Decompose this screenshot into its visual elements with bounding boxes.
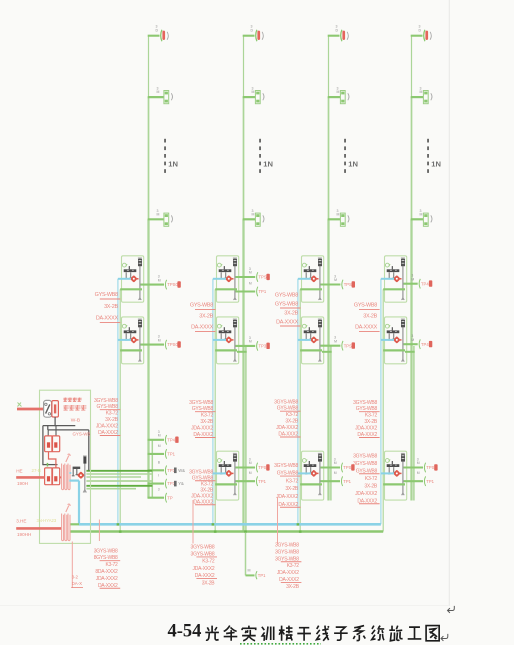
riser closet row y=219.3 column 4 — [411, 209, 432, 226]
rack bar — [233, 319, 237, 362]
telecom outlet diamond — [225, 336, 234, 344]
svg-text:GYS-WB8: GYS-WB8 — [190, 303, 213, 309]
wire stub to TP outlet y=467.5 — [321, 466, 341, 468]
cable schedule below bus column2 — [191, 544, 217, 586]
rack top cap — [138, 259, 142, 266]
unit2 lower link column 3 — [322, 351, 332, 353]
telecom outlet diamond — [225, 275, 234, 283]
svg-text:3X-2B: 3X-2B — [284, 311, 298, 317]
TP outlet TP4 — [419, 279, 432, 289]
pair-count label — [249, 458, 252, 466]
svg-text:TPS: TPS — [259, 275, 267, 280]
svg-text:3X-2B: 3X-2B — [286, 584, 300, 590]
TP outlet TPS0 — [165, 340, 180, 350]
svg-text:K3-72: K3-72 — [201, 413, 214, 419]
hub hooks — [220, 333, 227, 340]
svg-text:3X-2B: 3X-2B — [285, 419, 299, 425]
rack bar — [401, 453, 405, 495]
MDF interconnect wire — [49, 452, 56, 468]
svg-text:3X-2B: 3X-2B — [105, 417, 119, 423]
floor distributor FD box (riser x=243.5, top y=451.2) — [217, 451, 239, 500]
wire stub to TP outlet y=344.6 — [141, 344, 165, 346]
rack top cap — [233, 320, 237, 327]
FD label circle — [217, 263, 222, 267]
pair-count label — [158, 460, 161, 464]
wire stub to TP outlet y=439.8 — [148, 439, 165, 441]
red leader tick at bus column2 — [192, 500, 194, 544]
svg-text:W&: W& — [178, 468, 185, 473]
cable schedule text column2 mid — [190, 303, 216, 332]
lower green wire into FD — [300, 349, 322, 351]
svg-text:27-B: 27-B — [32, 468, 41, 473]
horizontal cable (cyan) into FD — [213, 472, 226, 474]
floor distributor FD box (riser x=148.5, top y=255.8) — [122, 256, 144, 302]
svg-text:JDA-XXX2: JDA-XXX2 — [96, 424, 118, 430]
FD label circle — [122, 324, 127, 328]
svg-text:M: M — [157, 213, 160, 217]
cable schedule beside bottom unit column3 — [274, 463, 300, 508]
telephone exchange symbol — [44, 400, 52, 417]
FD label circle — [302, 459, 307, 463]
telecom outlet diamond — [130, 336, 139, 344]
pair-count label — [249, 267, 252, 275]
coil2 tail wire — [71, 542, 73, 589]
rack bar — [401, 258, 405, 300]
hub hooks — [125, 272, 132, 279]
svg-text:M: M — [158, 444, 161, 448]
horizontal cable (cyan) into FD — [213, 278, 226, 280]
cyan horizontal backbone bus — [79, 523, 381, 526]
svg-text:M: M — [334, 278, 337, 282]
cyan backbone vertical column 4 — [380, 279, 382, 525]
svg-text:DA-XXXX: DA-XXXX — [96, 316, 119, 322]
riser closet row y=219.3 column 1 — [148, 209, 173, 226]
cable schedule below bus column3 — [275, 542, 301, 589]
svg-text:GYS-WB: GYS-WB — [73, 431, 91, 436]
svg-text:K3-72: K3-72 — [286, 412, 299, 418]
svg-text:TPS: TPS — [344, 282, 352, 287]
FD label circle — [122, 263, 127, 267]
city trunk label yellow — [32, 468, 41, 473]
TP outlet TP3 — [165, 466, 185, 476]
riser closet row y=97.1 column 3 — [328, 86, 349, 103]
telecom outlet diamond — [310, 470, 319, 478]
svg-text:M: M — [411, 338, 414, 342]
TP outlet TP3 — [257, 341, 270, 351]
svg-text:3GYS-WB8: 3GYS-WB8 — [94, 548, 118, 554]
cyan bus drop from BD — [78, 481, 80, 525]
svg-text:JDA-XXX2: JDA-XXX2 — [96, 576, 118, 582]
floor count label column 2 — [263, 160, 273, 169]
MDF frame box 3 — [45, 468, 53, 485]
svg-text:3X-2B: 3X-2B — [285, 486, 299, 492]
svg-text:M: M — [417, 461, 420, 465]
riser closet row y=97.1 column 1 — [148, 86, 173, 103]
svg-text:TP1: TP1 — [259, 289, 267, 294]
rack bar — [318, 453, 322, 495]
rack bar — [233, 258, 237, 300]
pair-count label — [417, 471, 420, 475]
svg-text:TP3: TP3 — [259, 344, 267, 349]
wire stub to TP outlet y=481.2 — [404, 480, 424, 482]
MDF frame box 4 — [52, 468, 60, 485]
svg-text:3GYS-WB8: 3GYS-WB8 — [275, 549, 299, 555]
svg-text:K3-72: K3-72 — [106, 411, 119, 417]
svg-text:190HH: 190HH — [17, 532, 31, 537]
wire stub to TP outlet y=467.5 — [236, 466, 256, 468]
svg-text:3X-2B: 3X-2B — [199, 314, 213, 320]
rack top cap — [318, 259, 322, 266]
wire stub to TP outlet y=481.2 — [321, 480, 341, 482]
svg-text:3-2: 3-2 — [72, 575, 79, 580]
bus junction dots — [117, 523, 302, 533]
rack top cap — [401, 259, 405, 266]
riser second run column 4 — [413, 346, 415, 501]
big-pair cable label above — [16, 518, 26, 523]
svg-text:TPS: TPS — [343, 465, 351, 470]
svg-text:TPS: TPS — [258, 465, 266, 470]
switch bar — [387, 461, 400, 467]
svg-text:K3-72: K3-72 — [202, 559, 215, 565]
cable schedule text column1 mid — [95, 292, 121, 322]
green tick on wire — [47, 463, 49, 467]
pair-count label — [158, 275, 161, 283]
pair-count label — [158, 488, 160, 492]
top floor TP outlet column 3 — [328, 25, 349, 42]
svg-text:DA-XXXX: DA-XXXX — [276, 320, 299, 326]
floors-ellipsis column 1 — [164, 139, 166, 173]
wire stub to TP outlet y=277.0 — [236, 276, 256, 278]
svg-text:M: M — [420, 213, 423, 217]
switch bar — [304, 461, 317, 467]
svg-text:GYS-WB8: GYS-WB8 — [275, 302, 298, 308]
svg-text:3X-2B: 3X-2B — [202, 580, 216, 586]
riser second run column 2 — [245, 346, 247, 532]
riser closet row y=219.3 column 2 — [243, 209, 264, 226]
svg-text:M: M — [334, 339, 337, 343]
incoming PSTN line label (green) — [18, 403, 22, 407]
svg-text:M: M — [157, 90, 160, 94]
incoming PSTN line — [17, 408, 44, 411]
rack top cap — [233, 454, 237, 461]
FD label circle — [217, 324, 222, 328]
floor distributor FD box (riser x=148.5, top y=316.9) — [122, 317, 144, 364]
riser closet row y=219.3 column 3 — [328, 209, 349, 226]
cyan backbone vertical column 2 — [212, 279, 214, 525]
svg-text:3GYS-WB8: 3GYS-WB8 — [353, 461, 377, 467]
switch bar — [124, 327, 137, 333]
unit2 lower link column 4 — [405, 351, 415, 353]
rack top cap — [401, 320, 405, 327]
TP outlet TPS — [256, 463, 269, 473]
svg-text:K3-72: K3-72 — [287, 563, 300, 569]
horizontal cable (cyan) into FD — [298, 278, 311, 280]
telecom outlet diamond — [393, 275, 402, 283]
svg-text:TP4: TP4 — [167, 437, 175, 442]
switch bar — [219, 266, 232, 272]
top floor TP outlet column 2 — [243, 25, 264, 42]
lower green wire into FD — [383, 349, 405, 351]
svg-text:M: M — [420, 90, 423, 94]
floor distributor FD box (riser x=243.5, top y=316.9) — [217, 317, 239, 364]
svg-text:TP1: TP1 — [258, 573, 266, 578]
green backbone vertical column 2 — [214, 289, 216, 531]
cyan backbone vertical column 1 — [117, 279, 119, 525]
svg-text:Y&: Y& — [178, 481, 184, 486]
svg-text:M: M — [252, 213, 255, 217]
pair-count label — [334, 336, 337, 344]
switch bar — [304, 327, 317, 333]
TP outlet TP1 — [257, 287, 267, 297]
svg-text:3GYS-WB8: 3GYS-WB8 — [353, 400, 377, 406]
rack bar — [318, 319, 322, 362]
svg-text:DA-XXXX: DA-XXXX — [355, 325, 378, 331]
pair-count label — [334, 471, 337, 475]
svg-text:M: M — [334, 461, 337, 465]
FD label circle — [302, 324, 307, 328]
TP outlet TPS — [257, 272, 270, 282]
svg-text:3X-2B: 3X-2B — [363, 314, 377, 320]
svg-text:8DA-XXX2: 8DA-XXX2 — [95, 569, 118, 575]
wire stub to TP outlet y=483.6 — [148, 483, 165, 485]
telecom outlet diamond — [310, 275, 319, 283]
TP outlet TP1 — [424, 476, 434, 486]
svg-text:TP1: TP1 — [343, 479, 351, 484]
cable schedule text column3 mid — [275, 293, 301, 326]
TP outlet TP1 — [341, 476, 351, 486]
lower green wire into FD — [120, 349, 142, 351]
riser backbone column 2 — [243, 36, 245, 532]
svg-text:M: M — [158, 434, 161, 438]
paragraph mark after title — [441, 634, 448, 641]
green backbone vertical column 3 — [299, 289, 301, 531]
svg-text:1N: 1N — [263, 160, 273, 169]
FD label circle — [385, 263, 390, 267]
pair-count label — [249, 282, 252, 286]
svg-text:M: M — [337, 213, 340, 217]
svg-text:M: M — [334, 471, 337, 475]
switch bar — [219, 461, 232, 467]
telecom outlet diamond — [225, 470, 234, 478]
top floor TP outlet column 4 — [411, 25, 432, 42]
svg-text:GYS-WB8: GYS-WB8 — [95, 292, 118, 298]
coil2 to bus link — [71, 523, 80, 525]
horizontal cable (cyan) into FD — [381, 278, 394, 280]
riser closet row y=97.1 column 2 — [243, 86, 264, 103]
paragraph mark after picture — [448, 606, 455, 613]
spellcheck dotted underline — [240, 643, 321, 645]
hub hooks — [305, 333, 312, 340]
svg-text:3GYS-WB8: 3GYS-WB8 — [274, 463, 298, 469]
big-pair incoming cable — [16, 527, 61, 530]
svg-text:JDA-XXX2: JDA-XXX2 — [276, 425, 298, 431]
big-pair cable label below — [17, 532, 31, 537]
lower green wire into FD — [120, 288, 142, 290]
green backbone vertical column 1 — [119, 289, 121, 531]
svg-text:DA-X: DA-X — [72, 581, 83, 586]
rack top cap — [401, 454, 405, 461]
riser backbone column 4 — [411, 36, 413, 501]
TP outlet TP1 — [165, 449, 175, 459]
telecom outlet diamond — [310, 336, 319, 344]
hub hooks — [305, 272, 312, 279]
svg-text:K3-72: K3-72 — [365, 476, 378, 482]
TP outlet TPS — [341, 463, 354, 473]
TP outlet TPS — [342, 280, 355, 290]
svg-text:M: M — [252, 90, 255, 94]
svg-text:M: M — [337, 90, 340, 94]
svg-text:JDA-XXX2: JDA-XXX2 — [192, 566, 214, 572]
svg-text:M: M — [248, 569, 251, 573]
room caption text row2 — [64, 405, 87, 410]
svg-text:3GYS-WB8: 3GYS-WB8 — [191, 544, 215, 550]
svg-text:M: M — [249, 271, 252, 275]
svg-text:TP1: TP1 — [258, 479, 266, 484]
hub hooks — [125, 333, 132, 340]
pair-count label — [417, 458, 420, 466]
floor count label column 1 — [168, 160, 178, 169]
hub hooks — [220, 272, 227, 279]
basement TP outlet — [248, 569, 267, 580]
horizontal cable (cyan) into FD — [298, 472, 311, 474]
wire stub to TP outlet y=345.7 — [321, 345, 341, 347]
hub hooks — [305, 467, 312, 474]
city trunk label above — [16, 469, 22, 474]
floor distributor FD box (riser x=411.5, top y=316.9) — [385, 317, 407, 364]
lower green wire into FD — [215, 349, 237, 351]
wire stub to TP outlet y=283.7 — [404, 283, 418, 285]
svg-text:JDA-XXX2: JDA-XXX2 — [355, 426, 377, 432]
svg-text:TP: TP — [167, 495, 173, 500]
wire stub to TP outlet y=284.5 — [321, 283, 341, 285]
svg-text:M: M — [417, 471, 420, 475]
svg-text:3GYS-WB8: 3GYS-WB8 — [275, 542, 299, 548]
TP outlet TPS — [424, 463, 437, 473]
wire stub to TP outlet y=284.6 — [141, 284, 165, 286]
room caption W-B — [71, 418, 80, 424]
switch bar — [219, 327, 232, 333]
basement drop wire column 2 — [246, 533, 255, 576]
FD label circle — [302, 263, 307, 267]
svg-text:190H: 190H — [17, 481, 28, 486]
svg-text:W-B: W-B — [71, 418, 80, 424]
room caption text row1 — [64, 398, 82, 402]
hub hooks — [388, 272, 395, 279]
exchange tie wiring — [43, 417, 89, 471]
BD rack bar — [83, 456, 87, 493]
svg-text:M: M — [249, 340, 252, 344]
embedded picture faint right edge — [448, 0, 450, 606]
title Chinese text (glyph approximations) — [205, 626, 439, 641]
city trunk label below — [17, 481, 28, 486]
wire stub to TP outlet y=470.3 — [148, 469, 165, 471]
cyan backbone vertical column 3 — [297, 279, 299, 525]
svg-text:M: M — [158, 338, 161, 342]
svg-text:TP1: TP1 — [426, 479, 434, 484]
floor distributor FD box (riser x=328.5, top y=255.8) — [302, 256, 324, 302]
wire stub to TP outlet y=497.7 — [148, 497, 165, 499]
room outgoing wire label leader — [98, 520, 100, 542]
BD outgoing cyan tie — [69, 480, 79, 482]
svg-text:M: M — [249, 282, 252, 286]
riser backbone column 1 — [148, 36, 150, 498]
coil2 tail labels — [71, 575, 83, 588]
svg-text:I: I — [158, 474, 159, 478]
horizontal cable (cyan) into FD — [118, 339, 131, 341]
svg-text:3: 3 — [158, 488, 160, 492]
svg-text:3X-2B: 3X-2B — [200, 419, 214, 425]
svg-text:3X-2B: 3X-2B — [104, 304, 118, 310]
floor count label column 4 — [431, 160, 441, 169]
pair-count label — [158, 430, 161, 438]
equipment room boundary — [40, 390, 91, 543]
PBX red unit — [52, 401, 59, 417]
pair-count label — [158, 474, 159, 478]
svg-text:3GYS-WB8: 3GYS-WB8 — [353, 453, 377, 459]
label GYS-WB at wiring — [73, 431, 91, 436]
riser backbone column 3 — [328, 36, 330, 501]
svg-text:3X-2B: 3X-2B — [364, 483, 378, 489]
city trunk incoming cable — [16, 476, 61, 479]
unit2 lower link column 2 — [237, 351, 247, 353]
pair-count label — [334, 458, 337, 466]
figure number 4-54 — [168, 622, 202, 642]
svg-text:GYS-WB8: GYS-WB8 — [354, 303, 377, 309]
rack top cap — [233, 259, 237, 266]
FD label circle — [217, 459, 222, 463]
hub hooks — [388, 333, 395, 340]
red leader tick at bus column3 — [277, 497, 279, 544]
pair-count label — [249, 336, 252, 344]
telecom outlet diamond — [130, 275, 139, 283]
switch bar — [124, 266, 137, 272]
FD label circle — [385, 459, 390, 463]
svg-text:3N-HYA23: 3N-HYA23 — [37, 518, 57, 523]
rack top cap — [318, 320, 322, 327]
TP outlet TP1 — [256, 476, 266, 486]
green backbone vertical column 4 — [382, 289, 384, 531]
building distributor BD — [69, 467, 85, 480]
svg-text:M: M — [249, 471, 252, 475]
TP outlet TP4 — [419, 339, 432, 349]
svg-text:TP4: TP4 — [421, 281, 429, 286]
floor distributor FD box (riser x=411.5, top y=255.8) — [385, 256, 407, 302]
rack bar — [318, 258, 322, 300]
lower green wire into FD — [383, 483, 405, 485]
svg-text:TPS: TPS — [344, 343, 352, 348]
wire stub to TP outlet y=467.5 — [404, 466, 424, 468]
embedded picture faint bottom edge — [0, 605, 449, 607]
FD label circle — [385, 324, 390, 328]
svg-text:M: M — [249, 461, 252, 465]
lower green wire into FD — [215, 288, 237, 290]
pair-count label — [158, 335, 161, 343]
svg-text:JDA-XXX2: JDA-XXX2 — [355, 491, 377, 497]
riser closet row y=97.1 column 4 — [411, 86, 432, 103]
wire stub to TP outlet y=481.2 — [236, 480, 256, 482]
svg-text:TP4: TP4 — [421, 342, 429, 347]
horizontal cable (cyan) into FD — [298, 339, 311, 341]
cable schedule text column4 mid — [354, 303, 380, 332]
horizontal cable (cyan) into FD — [118, 278, 131, 280]
lower green wire into FD — [215, 483, 237, 485]
horizontal cable (cyan) into FD — [213, 339, 226, 341]
cable schedule text column3 lower — [274, 399, 300, 437]
TP outlet TP3 — [165, 479, 184, 489]
svg-text:TP1: TP1 — [167, 452, 175, 457]
svg-text:3GYS-WB8: 3GYS-WB8 — [189, 400, 213, 406]
TP outlet TP4 — [165, 435, 178, 445]
